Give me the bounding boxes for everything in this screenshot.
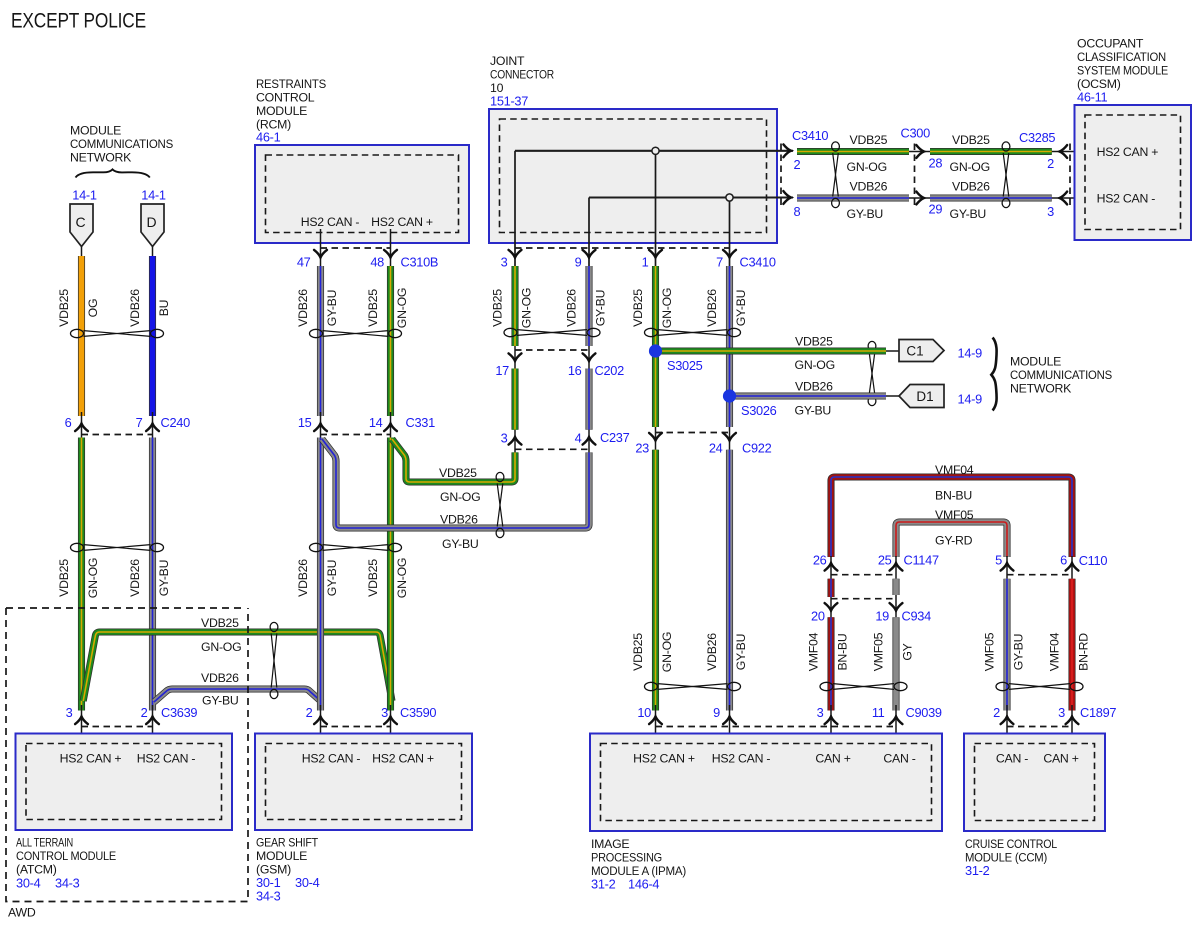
svg-text:46-1: 46-1 [256,130,281,145]
svg-text:9: 9 [713,705,720,720]
svg-text:GN-OG: GN-OG [795,358,835,372]
joint connector bus (CAN-) [589,196,793,198]
svg-text:GN-OG: GN-OG [395,288,409,328]
svg-text:BN-BU: BN-BU [836,633,850,670]
svg-text:2: 2 [141,705,148,720]
svg-text:VMF05: VMF05 [983,632,997,671]
RCM pin labels [301,215,433,229]
wire labels VMF04 BN-RD [1048,632,1091,671]
svg-text:EXCEPT POLICE: EXCEPT POLICE [11,9,146,33]
riser pin 9 [588,198,590,267]
svg-text:24: 24 [709,441,723,456]
svg-text:GN-OG: GN-OG [395,558,409,598]
twisted pair symbol [496,472,504,537]
svg-text:10: 10 [637,705,651,720]
connector C1897 [993,705,1116,744]
svg-text:GN-OG: GN-OG [86,558,100,598]
svg-text:C237: C237 [600,430,630,445]
wire VDB25 GN-OG (C331 to GSM) [387,438,394,711]
wire VDB25 GN-OG (C240 to ATCM) [78,438,85,711]
svg-text:C3590: C3590 [400,705,436,720]
svg-text:4: 4 [575,431,582,446]
svg-text:HS2 CAN -: HS2 CAN - [301,215,360,229]
label GSM [256,836,319,877]
wire labels VDB25 GN-OG [491,288,534,328]
svg-text:26: 26 [813,553,827,568]
connector C110 [995,553,1107,579]
svg-text:14-9: 14-9 [958,392,983,407]
wire VDB25 GN-OG branch (ATCM to GSM) [83,632,392,701]
svg-text:9: 9 [575,255,582,270]
module IPMA box [590,734,942,832]
svg-text:GY-BU: GY-BU [847,207,884,221]
RCM pin 48 stub [390,229,392,266]
svg-text:S3026: S3026 [741,403,777,418]
twisted pair symbol [504,328,600,336]
svg-text:2: 2 [794,157,801,172]
svg-text:CAN +: CAN + [815,752,850,766]
svg-text:VDB26: VDB26 [565,289,579,327]
wire VDB26 BU [149,256,156,416]
svg-text:28: 28 [929,156,943,171]
AWD region box [6,608,248,902]
svg-text:6: 6 [65,415,72,430]
svg-text:C1897: C1897 [1080,705,1116,720]
svg-text:1: 1 [642,255,649,270]
svg-text:HS2 CAN +: HS2 CAN + [1097,145,1159,159]
svg-text:VDB25: VDB25 [952,133,990,147]
svg-text:GN-OG: GN-OG [520,288,534,328]
wire VMF04 BN-BU loop (IPMA to CCM) [831,477,1072,557]
svg-text:VDB26: VDB26 [795,380,833,394]
svg-text:C240: C240 [161,415,191,430]
wire VMF05 GY (C934 to IPMA) [892,617,899,710]
svg-text:146-4: 146-4 [628,877,659,892]
svg-text:BN-BU: BN-BU [935,489,972,503]
svg-text:GY-BU: GY-BU [202,694,239,708]
bus node circle (pin 7) [726,194,733,201]
svg-text:VMF04: VMF04 [1048,632,1062,671]
svg-text:14-1: 14-1 [72,188,97,203]
svg-text:VDB25: VDB25 [366,559,380,597]
svg-text:COMMUNICATIONS: COMMUNICATIONS [1010,368,1112,382]
svg-text:MODULE: MODULE [1010,355,1061,369]
twisted pair symbol [868,341,876,405]
svg-text:GN-OG: GN-OG [660,288,674,328]
stub to D1 [886,395,900,397]
connector C240 [65,412,190,438]
svg-text:CONTROL: CONTROL [256,91,315,105]
wire VDB26 GY-BU (C922 to IPMA) [726,450,733,711]
svg-text:47: 47 [297,255,311,270]
riser pin 7 [729,198,731,267]
svg-text:GN-OG: GN-OG [440,490,480,504]
svg-text:OG: OG [86,299,100,318]
svg-text:GY-BU: GY-BU [594,290,608,327]
wire VDB26 GY-BU (JC pin 9) [585,266,592,346]
svg-text:8: 8 [794,204,801,219]
svg-text:GY-BU: GY-BU [325,290,339,327]
svg-text:GN-OG: GN-OG [847,160,887,174]
module GSM box [255,734,472,831]
svg-text:46-11: 46-11 [1077,90,1107,105]
svg-text:GY: GY [901,643,915,660]
svg-text:VDB25: VDB25 [795,335,833,349]
svg-text:GN-OG: GN-OG [950,160,990,174]
svg-text:C922: C922 [742,441,772,456]
svg-text:CRUISE CONTROL: CRUISE CONTROL [965,837,1057,851]
wire labels VDB26 GY-BU [565,289,608,327]
IPMA pin labels [633,752,916,766]
svg-text:VMF04: VMF04 [807,632,821,671]
svg-text:31-2: 31-2 [965,863,990,878]
svg-text:HS2 CAN -: HS2 CAN - [137,752,196,766]
svg-text:48: 48 [370,255,384,270]
label RCM [256,77,326,132]
stub under connector D [152,247,154,259]
svg-text:VDB26: VDB26 [128,559,142,597]
twisted pair symbol [820,682,907,690]
label CCM [965,837,1057,865]
svg-text:VMF04: VMF04 [935,463,974,477]
wire VDB25 OG [78,256,85,416]
module OCSM box [1075,105,1192,240]
svg-text:IMAGE: IMAGE [591,837,629,851]
svg-text:15: 15 [298,415,312,430]
svg-text:17: 17 [495,363,509,378]
twisted pair symbol [71,329,164,337]
OCSM pin labels [1097,145,1159,206]
wire VMF05 GY jumper (C1147 to C934) [892,579,899,595]
wire labels seg1 [847,133,888,221]
twisted pair symbol [310,543,402,551]
connector C (off-page) [70,204,93,247]
svg-text:GN-OG: GN-OG [201,640,241,654]
svg-text:VDB25: VDB25 [491,289,505,327]
svg-text:VDB26: VDB26 [705,633,719,671]
bus node circle (pin 1) [652,147,659,154]
wire VDB26 GY-BU (C331 to GSM) [317,438,324,711]
svg-text:C9039: C9039 [906,705,942,720]
svg-text:C1147: C1147 [904,553,939,568]
svg-text:VDB26: VDB26 [440,513,478,527]
ATCM pin labels [60,752,196,766]
wire VDB25 GN-OG (C202 to C237) [511,369,518,430]
splice S3025 [649,344,662,357]
wire labels VDB25 GN-OG [631,632,674,672]
RCM pin 47 stub [320,229,322,266]
svg-text:RESTRAINTS: RESTRAINTS [256,77,326,91]
svg-text:GY-BU: GY-BU [442,537,479,551]
svg-text:14-1: 14-1 [141,188,166,203]
wire VDB26 GY-BU (RCM 47) [317,266,324,416]
svg-text:VDB26: VDB26 [296,289,310,327]
svg-text:34-3: 34-3 [55,876,80,891]
svg-text:HS2 CAN +: HS2 CAN + [372,752,434,766]
riser pin 1 [655,151,657,266]
wire labels VDB26 BU [128,289,171,327]
svg-text:COMMUNICATIONS: COMMUNICATIONS [70,137,173,151]
svg-text:6: 6 [1060,553,1067,568]
twisted pair symbol [832,142,840,208]
svg-text:2: 2 [993,705,1000,720]
svg-text:VDB26: VDB26 [952,180,990,194]
twisted pair symbol [645,328,741,336]
wire labels VDB25 GN-OG (to C1) [795,335,835,373]
svg-text:CONTROL MODULE: CONTROL MODULE [16,849,116,863]
wire VDB25 GN-OG (C300 to C3285) [930,148,1052,155]
twisted pair symbol [71,543,164,551]
svg-text:GN-OG: GN-OG [660,632,674,672]
svg-text:CAN -: CAN - [883,752,915,766]
connector C3639 [66,705,198,744]
svg-text:3: 3 [1058,705,1065,720]
svg-text:VDB25: VDB25 [631,289,645,327]
wire VDB26 GY-BU branch (C331 to C237) [322,439,589,528]
connector C9039 [817,705,942,744]
svg-text:VDB25: VDB25 [439,466,477,480]
svg-text:C110: C110 [1079,553,1108,568]
wire labels VDB25 GN-OG [366,558,409,598]
svg-text:HS2 CAN -: HS2 CAN - [1097,192,1156,206]
svg-text:VDB26: VDB26 [201,671,239,685]
stub to C1 [886,350,900,352]
svg-text:3: 3 [501,431,508,446]
wire VDB26 GY-BU (S3026 to D1) [730,392,887,399]
svg-text:GY-BU: GY-BU [734,634,748,671]
label module communications network (left) [70,124,173,165]
svg-text:29: 29 [929,202,943,217]
AWD region box top [6,607,243,609]
connector C300 [901,126,943,217]
svg-text:C3639: C3639 [161,705,197,720]
wire labels VMF05 GY-BU [983,632,1026,671]
svg-text:AWD: AWD [8,906,36,920]
svg-text:GY-BU: GY-BU [325,560,339,597]
wire labels VMF05 GY [872,632,915,671]
wire labels seg2 [950,133,991,221]
wire labels VDB26 GY-BU [705,633,748,671]
svg-text:PROCESSING: PROCESSING [591,851,662,865]
svg-text:VDB26: VDB26 [850,180,888,194]
wire labels VMF04 BN-BU [935,463,974,503]
svg-text:HS2 CAN +: HS2 CAN + [371,215,433,229]
wire VDB25 GN-OG (JC pin 1) [652,266,659,427]
svg-text:VDB25: VDB25 [366,289,380,327]
svg-text:C331: C331 [406,415,436,430]
svg-text:GEAR SHIFT: GEAR SHIFT [256,836,319,850]
wire VDB26 GY-BU branch (ATCM to GSM) [154,689,322,702]
twisted pair symbol [1002,142,1010,208]
svg-text:VMF05: VMF05 [935,508,974,522]
svg-text:7: 7 [136,415,143,430]
connector C310B [297,248,438,270]
svg-text:16: 16 [568,363,582,378]
wire VDB25 GN-OG (C922 to IPMA) [652,450,659,711]
svg-text:C1: C1 [906,344,923,359]
page refs IPMA [591,877,659,892]
wire VMF04 BN-RD (C110 to CCM) [1068,579,1075,711]
svg-text:CAN -: CAN - [996,752,1028,766]
stub under connector C [81,247,83,259]
GSM pin labels [302,752,434,766]
svg-text:SYSTEM MODULE: SYSTEM MODULE [1077,64,1168,78]
wire labels VDB25 GN-OG [631,288,674,328]
connector C3410 (joint connector pins) [501,248,776,270]
wire VDB26 GY-BU (C3410 to C300) [797,194,909,201]
label JOINT CONNECTOR 10 [490,54,554,95]
connector C1147 [813,553,939,579]
svg-text:OCCUPANT: OCCUPANT [1077,37,1144,51]
svg-text:30-4: 30-4 [16,876,41,891]
svg-text:VDB25: VDB25 [57,289,71,327]
connector D (off-page) [141,204,164,247]
twisted pair symbol [996,682,1083,690]
connector D1 (off-page) [899,385,944,408]
connector C1 (off-page) [899,340,944,362]
svg-text:(ATCM): (ATCM) [16,863,57,877]
wire VDB26 GY-BU (C300 to C3285) [930,194,1052,201]
svg-text:C3410: C3410 [740,255,776,270]
svg-text:7: 7 [716,255,723,270]
wire labels VDB26 GY-BU (to D1) [795,380,834,418]
connector C202 [495,346,624,378]
svg-text:C310B: C310B [401,255,439,270]
wire labels VDB26 GY-BU [296,289,339,327]
connector C331 [298,412,435,438]
svg-text:2: 2 [306,705,313,720]
page refs GSM [256,875,320,904]
module RCM box [255,145,469,243]
svg-text:11: 11 [872,705,885,720]
svg-text:3: 3 [501,255,508,270]
splice S3026 [723,389,736,402]
svg-text:31-2: 31-2 [591,877,616,892]
svg-text:HS2 CAN +: HS2 CAN + [60,752,122,766]
svg-text:VDB25: VDB25 [201,616,239,630]
svg-text:3: 3 [381,705,388,720]
svg-text:HS2 CAN +: HS2 CAN + [633,752,695,766]
wire labels VDB26 GY-BU [128,559,171,597]
label OCSM [1077,37,1168,92]
wire labels VMF04 BN-BU [807,632,850,671]
svg-text:C300: C300 [901,126,931,141]
svg-text:GY-RD: GY-RD [935,534,973,548]
svg-text:GY-BU: GY-BU [1012,634,1026,671]
svg-text:VMF05: VMF05 [872,632,886,671]
CCM pin labels [996,752,1079,766]
connector C3285 [1019,130,1086,219]
svg-text:D1: D1 [916,389,933,404]
module ATCM box [16,734,233,831]
wire VDB25 GN-OG branch (C331 to C237) [392,439,515,482]
wire VDB26 GY-BU (C202 to C237) [585,369,592,430]
twisted pair symbol [310,329,402,337]
wire labels VDB25 OG [57,289,100,327]
svg-text:GY-BU: GY-BU [795,404,832,418]
wire labels VDB26 GY-BU [296,559,339,597]
wire VMF05 GY-RD loop [896,522,1007,557]
svg-text:MODULE: MODULE [70,124,121,138]
wire VMF05 GY-BU (C110 to CCM) [1003,579,1010,711]
svg-text:151-37: 151-37 [490,94,528,109]
svg-text:D: D [146,214,156,230]
svg-text:3: 3 [817,705,824,720]
svg-text:HS2 CAN -: HS2 CAN - [302,752,361,766]
IPMA pin stubs [637,705,736,744]
svg-text:CONNECTOR: CONNECTOR [490,68,554,82]
svg-text:NETWORK: NETWORK [1010,382,1072,396]
svg-text:VDB25: VDB25 [57,559,71,597]
svg-text:5: 5 [995,553,1002,568]
svg-text:JOINT: JOINT [490,54,525,68]
svg-text:14-9: 14-9 [958,346,983,361]
joint connector box [489,109,777,243]
wire labels VMF05 GY-RD [935,508,974,548]
svg-text:ALL TERRAIN: ALL TERRAIN [16,836,73,850]
connector C3410 (pins 2/8) [781,128,828,219]
wire VMF04 BN-BU (C934 to IPMA) [827,617,834,710]
svg-text:VDB26: VDB26 [296,559,310,597]
svg-text:C3410: C3410 [792,128,828,143]
svg-text:S3025: S3025 [667,358,703,373]
svg-text:20: 20 [811,609,825,624]
module CCM box [964,734,1105,832]
horizontal brace [76,169,150,177]
svg-text:14: 14 [369,415,383,430]
svg-text:3: 3 [66,705,73,720]
connector C934 [811,595,931,624]
svg-text:NETWORK: NETWORK [70,151,132,165]
svg-text:VDB26: VDB26 [705,289,719,327]
svg-text:C934: C934 [902,609,932,624]
wire VDB25 GN-OG (S3025 to C1) [656,347,887,354]
wire VDB26 GY-BU (C240 to ATCM) [149,438,156,711]
svg-text:C3285: C3285 [1019,130,1055,145]
svg-text:BN-RD: BN-RD [1077,633,1091,671]
twisted pair symbol [645,682,741,690]
branch labels [201,616,241,708]
wire labels VDB25 GN-OG [366,288,409,328]
svg-text:CLASSIFICATION: CLASSIFICATION [1077,50,1166,64]
wire VDB25 GN-OG (JC pin 3) [511,266,518,346]
svg-text:2: 2 [1047,156,1054,171]
svg-text:MODULE: MODULE [256,849,307,863]
svg-text:GY-BU: GY-BU [734,290,748,327]
svg-text:34-3: 34-3 [256,889,281,904]
twisted pair symbol [270,622,278,698]
connector C237 [501,430,630,453]
branch labels (middle) [439,466,480,551]
connector C922 [635,427,771,456]
svg-text:19: 19 [875,609,889,624]
svg-text:C: C [75,214,85,230]
wire VMF04 BN-BU jumper (C1147 to C934) [827,579,834,597]
connector C3590 [306,705,437,744]
svg-text:30-4: 30-4 [295,875,320,890]
svg-text:VDB25: VDB25 [850,133,888,147]
svg-text:GY-BU: GY-BU [157,560,171,597]
svg-text:VDB26: VDB26 [128,289,142,327]
svg-text:GY-BU: GY-BU [950,207,987,221]
svg-text:VDB25: VDB25 [631,633,645,671]
svg-text:25: 25 [878,553,892,568]
label ATCM [16,836,116,877]
svg-text:3: 3 [1047,204,1054,219]
page refs ATCM [16,876,80,891]
wire labels VDB25 GN-OG [57,558,100,598]
svg-text:BU: BU [157,300,171,317]
